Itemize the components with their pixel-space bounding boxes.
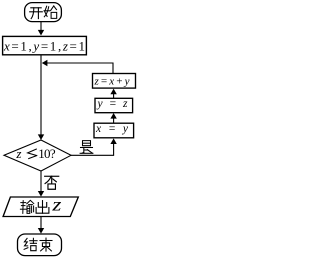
- svg-text:z: z: [15, 146, 21, 161]
- svg-text:10?: 10?: [38, 146, 56, 161]
- svg-text:x=1,y=1,z=1: x=1,y=1,z=1: [3, 38, 85, 53]
- svg-text:x = y: x = y: [95, 123, 129, 135]
- svg-text:z: z: [51, 195, 62, 215]
- svg-text:y = z: y = z: [97, 98, 129, 110]
